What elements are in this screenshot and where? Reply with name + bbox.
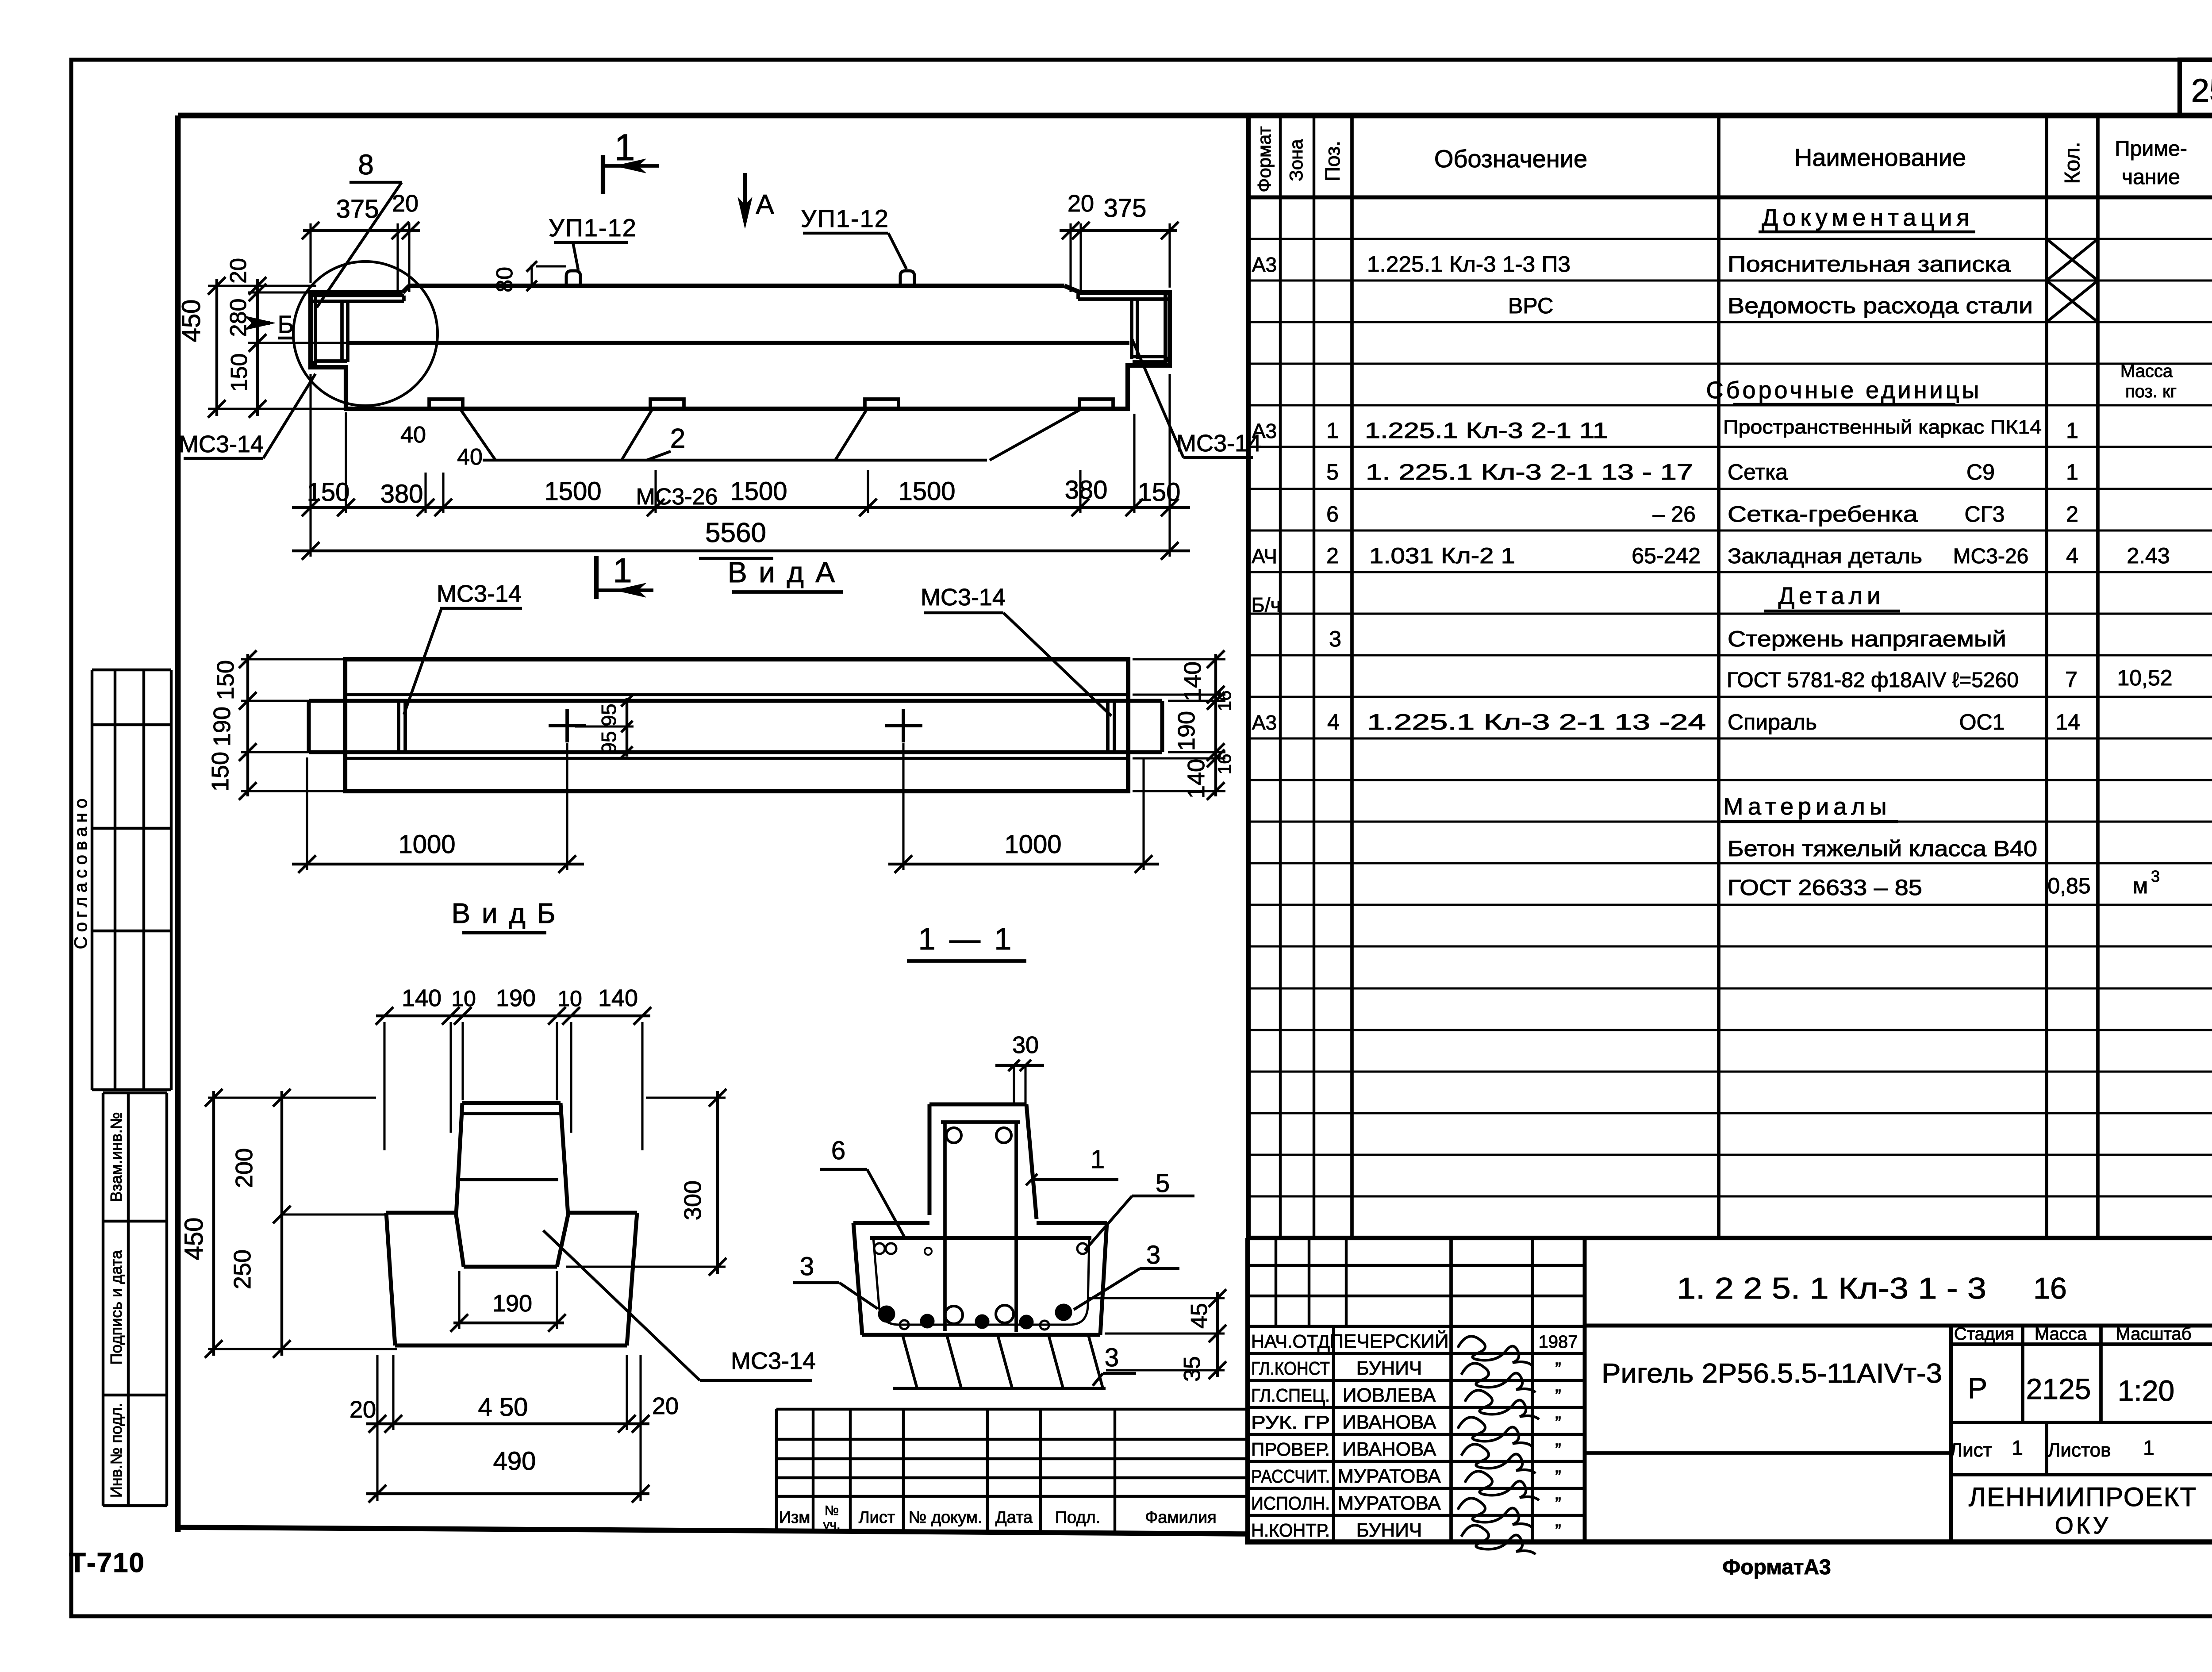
svg-text:РАССЧИТ.: РАССЧИТ. [1251,1466,1330,1487]
svg-text:5: 5 [1156,1169,1170,1198]
svg-text:1: 1 [2066,418,2078,443]
dimension texts 150 380 1500 x3 380 150 [307,422,1181,508]
svg-text:”: ” [1555,1386,1561,1406]
Вид Б left chain 200 250 [208,1089,397,1358]
svg-text:10: 10 [451,986,476,1011]
svg-text:Формат: Формат [1254,126,1275,192]
svg-text:АЧ: АЧ [1252,545,1277,568]
svg-text:5: 5 [1326,460,1339,484]
svg-text:Пояснительная записка: Пояснительная записка [1728,252,2011,277]
stamp format note [1722,1556,1831,1579]
svg-text:А3: А3 [1252,419,1277,442]
svg-text:Инв.№ подл.: Инв.№ подл. [107,1403,125,1498]
svg-text:”: ” [1555,1467,1561,1487]
svg-text:уч.: уч. [823,1518,841,1532]
label МС3-26 [636,484,718,510]
svg-text:3: 3 [1329,627,1341,651]
svg-text:380: 380 [380,480,423,508]
section 1-1 flange top rebars [874,1243,1088,1255]
svg-text:6: 6 [831,1136,845,1165]
svg-text:МС3-14: МС3-14 [731,1348,816,1374]
svg-text:ОС1: ОС1 [1959,710,2005,734]
svg-text:УП1-12: УП1-12 [801,204,889,232]
section 1-1 stirrups and mesh [870,1122,1091,1332]
svg-text:20: 20 [1068,190,1094,217]
svg-text:14: 14 [2055,710,2080,734]
svg-text:”: ” [1555,1440,1561,1460]
svg-text:35: 35 [1179,1356,1205,1382]
stamp list row [1950,1436,2154,1461]
svg-text:Подл.: Подл. [1055,1508,1101,1527]
svg-text:1.031 Кл-2 1: 1.031 Кл-2 1 [1369,543,1515,568]
section 1-1 spiral hatch below [893,1335,1106,1388]
specification table headers [1254,126,2187,192]
svg-text:СГ3: СГ3 [1965,502,2005,527]
section 1-1 right dims 45 35 [1088,1289,1226,1382]
svg-text:Изм: Изм [779,1508,810,1527]
leader collector line for МС3-26 plates [460,409,1082,460]
bottom embedded plates МС3-26 [429,399,1113,409]
stamp designation 1.225.1 КЛ-3 1-3 / 16 [1677,1272,2067,1305]
svg-text:Лист: Лист [1950,1439,1992,1461]
svg-text:Масса: Масса [2035,1324,2087,1344]
svg-text:Пространственный каркас ПК14: Пространственный каркас ПК14 [1723,416,2042,438]
svg-text:1: 1 [1091,1145,1105,1174]
svg-text:”: ” [1555,1359,1561,1379]
svg-text:Кол.: Кол. [2061,142,2084,184]
svg-text:250: 250 [229,1249,256,1289]
svg-text:Согласовано: Согласовано [71,794,91,949]
svg-text:150: 150 [1138,478,1181,507]
label 5 [1085,1169,1194,1250]
stamp signature rows [1251,1330,1578,1554]
lifting loop УП1-12 no.2 [900,271,914,286]
label МС3-14 (Вид Б) [543,1230,816,1380]
svg-text:МУРАТОВА: МУРАТОВА [1337,1492,1441,1514]
spec row Сетка-гребенка СГ3 [1326,502,2078,527]
spec row ГОСТ 5781-82 [1727,665,2173,692]
svg-text:140: 140 [1183,759,1210,799]
svg-text:16: 16 [1214,754,1235,775]
svg-text:6: 6 [1326,502,1339,527]
svg-text:№: № [825,1503,839,1518]
Вид Б left dim 450 [180,1089,223,1358]
svg-text:0,85: 0,85 [2047,873,2090,898]
change log table [776,1409,1248,1533]
title Вид Б [451,897,557,933]
Вид А stem half-width dims 95 / 95 [575,695,634,758]
svg-text:”: ” [1555,1413,1561,1433]
svg-text:Ведомость расхода стали: Ведомость расхода стали [1728,293,2033,318]
label 3 bottom [1093,1343,1136,1386]
label УП1-12 no.2 [801,204,906,269]
Вид А outline [309,659,1162,791]
Вид Б bottom dim 490 [366,1447,649,1503]
svg-text:300: 300 [680,1180,706,1220]
svg-text:ГЛ.СПЕЦ.: ГЛ.СПЕЦ. [1251,1385,1330,1406]
svg-text:ПЕЧЕРСКИЙ: ПЕЧЕРСКИЙ [1329,1330,1448,1352]
svg-text:20: 20 [392,190,419,217]
svg-text:1: 1 [2143,1436,2154,1459]
svg-text:10,52: 10,52 [2117,665,2172,690]
spec row Закладная деталь МС3-26 [1252,543,2170,568]
spec row Спираль ОС1 [1252,710,2080,734]
spec row Стержень напрягаемый [1252,593,2006,651]
svg-text:Подпись и дата: Подпись и дата [107,1250,125,1365]
svg-text:Материалы: Материалы [1723,793,1891,820]
svg-text:30: 30 [1012,1032,1039,1058]
section 1-1 outline [853,1104,1107,1335]
approval grid [92,670,171,1090]
svg-text:7: 7 [2065,667,2078,692]
Вид А right dims 140 16 190 16 140 [1133,650,1235,800]
spec row Детали [1764,583,1900,611]
svg-text:БУНИЧ: БУНИЧ [1356,1519,1422,1541]
spec row Пояснительная записка [1252,239,2098,281]
svg-text:ИСПОЛН.: ИСПОЛН. [1251,1493,1330,1514]
svg-text:5560: 5560 [705,518,766,548]
title 1 - 1 [907,922,1026,961]
svg-text:”: ” [1555,1494,1561,1514]
svg-text:ГЛ.КОНСТ: ГЛ.КОНСТ [1251,1358,1330,1379]
elevation bottom dimension line (chain) [292,374,1190,557]
svg-text:20: 20 [652,1393,679,1419]
svg-text:150: 150 [307,478,350,507]
svg-text:А3: А3 [1252,711,1277,734]
svg-text:поз. кг: поз. кг [2125,382,2177,401]
Вид А left dims 150 190 150 [207,650,347,800]
left margin block Взам.инв.№ / Подпись и дата / Инв.№ подл. [103,1093,167,1506]
svg-text:140: 140 [402,985,442,1011]
section 1-1 top rebars [946,1128,1011,1143]
svg-text:375: 375 [1104,194,1147,223]
spec row Материалы [1721,793,1898,822]
svg-text:490: 490 [493,1447,536,1476]
svg-text:380: 380 [1065,476,1108,504]
svg-text:Поз.: Поз. [1321,141,1344,181]
svg-text:1: 1 [614,127,635,168]
svg-text:1500: 1500 [544,477,601,506]
stamp stadia massa masshtab [1954,1324,2192,1407]
svg-text:Стадия: Стадия [1954,1324,2014,1344]
left vertical chain 20 280 150 [208,258,350,418]
svg-text:2: 2 [670,423,685,454]
svg-text:В и д А: В и д А [728,556,837,588]
section cut mark 1 (top) [603,127,659,194]
label 1 [1026,1145,1118,1185]
specification table grid [1248,115,2212,1238]
svg-text:190: 190 [1173,711,1200,751]
svg-text:”: ” [1555,1521,1561,1541]
svg-text:ЛЕННИИПРОЕКТ: ЛЕННИИПРОЕКТ [1969,1482,2197,1512]
stamp organization [1969,1482,2197,1539]
spec row Документация [1759,204,1975,232]
svg-text:Сетка: Сетка [1728,460,1788,484]
svg-text:Р: Р [1968,1372,1987,1404]
svg-text:2.43: 2.43 [2127,543,2170,568]
svg-text:450: 450 [177,300,206,342]
svg-text:190: 190 [492,1290,532,1317]
svg-text:3: 3 [800,1252,814,1281]
svg-text:Масштаб: Масштаб [2116,1324,2191,1344]
svg-text:Стержень напрягаемый: Стержень напрягаемый [1728,627,2006,651]
label 6 [820,1136,904,1237]
svg-text:Наименование: Наименование [1794,143,1966,171]
label МС3-14 left (elevation) [179,374,315,458]
svg-text:450: 450 [180,1218,208,1261]
svg-text:Т-710: Т-710 [69,1548,145,1578]
spec row Сетка С9 [1326,460,2078,484]
title block grid [1248,1238,2212,1542]
svg-text:20: 20 [349,1396,376,1423]
svg-text:Лист: Лист [859,1508,895,1527]
svg-text:ПРОВЕР.: ПРОВЕР. [1251,1439,1330,1460]
Вид А dimension 1000 left [292,743,584,873]
svg-text:ИВАНОВА: ИВАНОВА [1342,1438,1436,1460]
svg-text:4 50: 4 50 [478,1393,528,1422]
svg-text:1.225.1 Кл-3 2-1 13 -24: 1.225.1 Кл-3 2-1 13 -24 [1367,710,1706,734]
svg-text:16: 16 [1214,691,1235,711]
spec row Пространственный каркас ПК14 [1252,416,2078,443]
top left dimensions 375 / 20 [302,190,420,292]
svg-text:8: 8 [358,149,374,181]
svg-text:40: 40 [400,422,426,448]
svg-text:Обозначение: Обозначение [1434,145,1587,173]
svg-text:200: 200 [231,1148,257,1188]
inner drawing frame [178,115,2212,1542]
svg-text:Сетка-гребенка: Сетка-гребенка [1728,502,1918,527]
svg-text:МС3-14: МС3-14 [437,580,522,607]
svg-text:Зона: Зона [1286,139,1306,181]
Вид Б top dims 140 10 190 10 140 [376,985,651,1150]
embedded channel plate MC3-14 left [312,296,404,367]
svg-text:65-242: 65-242 [1632,543,1701,568]
Вид Б dim 190 (stem bottom) [450,1271,566,1332]
svg-text:№ докум.: № докум. [909,1508,983,1527]
svg-text:БУНИЧ: БУНИЧ [1356,1357,1422,1379]
svg-text:Б: Б [278,310,294,338]
svg-text:2: 2 [1326,543,1339,568]
svg-text:ВРС: ВРС [1508,293,1553,318]
view direction mark Б [244,310,295,338]
svg-text:м: м [2133,873,2148,898]
svg-text:Б/ч: Б/ч [1252,593,1281,616]
svg-text:10: 10 [557,986,582,1011]
stamp title Ригель [1601,1358,1942,1389]
svg-text:375: 375 [336,195,379,223]
svg-text:3: 3 [1105,1343,1119,1372]
lifting loop УП1-12 no.1 [566,271,580,286]
label 3 left [793,1252,878,1309]
svg-text:4: 4 [2066,543,2078,568]
svg-text:1500: 1500 [898,477,955,506]
svg-text:190: 190 [496,985,536,1011]
svg-text:95: 95 [597,703,620,726]
svg-text:Документация: Документация [1762,204,1974,231]
svg-text:Бетон тяжелый класса В40: Бетон тяжелый класса В40 [1728,836,2037,861]
svg-text:Сборочные единицы: Сборочные единицы [1706,377,1982,404]
plate edges (Вид А) [399,701,1114,752]
loop height dimension 80 [492,261,566,292]
left margin label Согласовано [71,794,91,949]
spec row Сборочные единицы [1706,361,2177,404]
svg-text:4: 4 [1327,710,1340,734]
svg-text:80: 80 [492,267,518,292]
beam elevation outline [311,286,1170,409]
svg-text:Закладная деталь: Закладная деталь [1728,545,1922,568]
label МС3-14 right (elevation) [1131,337,1261,457]
svg-text:Дата: Дата [995,1508,1033,1527]
svg-text:20: 20 [226,258,251,284]
svg-text:УП1-12: УП1-12 [549,214,637,242]
svg-text:1:20: 1:20 [2118,1374,2174,1407]
svg-text:1. 225.1 Кл-3 2-1 13 - 17: 1. 225.1 Кл-3 2-1 13 - 17 [1366,460,1693,484]
section 1-1 bottom rebars [878,1304,1072,1330]
svg-text:А: А [756,189,774,220]
Вид Б outline [386,1103,637,1345]
label 3 right [1074,1241,1179,1310]
svg-text:1 — 1: 1 — 1 [918,922,1014,956]
svg-text:Н.КОНТР.: Н.КОНТР. [1251,1520,1330,1541]
svg-text:150: 150 [212,660,239,700]
view direction mark A [738,173,774,228]
svg-text:МС3-14: МС3-14 [921,584,1006,611]
svg-text:Фамилия: Фамилия [1145,1508,1216,1527]
svg-text:Взам.инв.№: Взам.инв.№ [107,1112,125,1202]
svg-text:Ригель 2Р56.5.5-11АIVт-3: Ригель 2Р56.5.5-11АIVт-3 [1601,1358,1942,1389]
svg-text:95: 95 [597,731,620,753]
svg-text:Приме-: Приме- [2115,137,2187,161]
svg-text:40: 40 [457,444,483,470]
svg-text:1. 2 2 5. 1 Кл-3 1 - 3: 1. 2 2 5. 1 Кл-3 1 - 3 [1677,1272,1986,1305]
svg-text:РУК. ГР: РУК. ГР [1251,1412,1330,1433]
svg-text:16: 16 [2033,1272,2067,1305]
left vertical dimension 450 [177,277,226,418]
svg-text:ИВАНОВА: ИВАНОВА [1342,1411,1436,1433]
label УП1-12 no.1 [549,214,637,270]
svg-text:С9: С9 [1966,460,1995,484]
svg-text:1: 1 [2012,1436,2023,1459]
svg-text:1: 1 [1326,418,1339,443]
embedded channel plate MC3-14 right [1078,293,1168,365]
svg-text:1500: 1500 [730,477,787,506]
svg-text:Листов: Листов [2048,1439,2111,1461]
detail circle Б [293,261,438,406]
svg-text:чание: чание [2122,165,2180,189]
svg-text:МС3-26: МС3-26 [636,484,718,510]
section cut mark 1 (at Вид А) [596,551,653,599]
svg-text:3: 3 [2151,867,2160,885]
svg-text:45: 45 [1187,1303,1212,1329]
position label 8 with leader [317,149,402,307]
svg-text:НАЧ.ОТД: НАЧ.ОТД [1251,1331,1330,1352]
svg-text:ГОСТ 5781-82 ф18АIV ℓ=5260: ГОСТ 5781-82 ф18АIV ℓ=5260 [1727,669,2019,692]
svg-text:2: 2 [2066,502,2078,527]
svg-text:1000: 1000 [398,830,455,859]
change log headers [779,1503,1217,1532]
svg-text:А3: А3 [1252,253,1277,276]
section 1-1 dim 30 [995,1032,1044,1104]
svg-text:1000: 1000 [1004,830,1061,859]
title Вид А [728,556,843,592]
svg-text:ГОСТ 26633 – 85: ГОСТ 26633 – 85 [1728,875,1922,900]
label МС3-14 right (Вид А) [921,584,1111,716]
svg-text:ОКУ: ОКУ [2055,1512,2111,1539]
svg-text:1.225.1 Кл-3 2-1 11: 1.225.1 Кл-3 2-1 11 [1365,418,1608,443]
Вид Б right dim 300 [566,1089,726,1276]
overall dimension 5560 [292,518,1190,560]
svg-text:25: 25 [2191,72,2212,109]
svg-text:МС3-26: МС3-26 [1953,545,2029,568]
svg-text:МУРАТОВА: МУРАТОВА [1337,1465,1441,1487]
svg-text:Спираль: Спираль [1728,710,1817,734]
svg-text:МС3-14: МС3-14 [179,431,264,457]
svg-text:2125: 2125 [2026,1372,2091,1405]
spec row Ведомость расхода стали [1508,281,2098,322]
svg-text:1: 1 [2066,460,2078,484]
svg-text:3: 3 [1146,1241,1160,1269]
svg-text:190: 190 [209,707,235,746]
top right dimensions 20 / 375 [1060,190,1179,292]
svg-text:1987: 1987 [1539,1332,1578,1352]
Вид А dimension 1000 right [888,743,1159,873]
svg-text:140: 140 [598,985,638,1011]
label МС3-14 left (Вид А) [404,580,522,715]
spec row ГОСТ 26633-85 [1728,867,2160,900]
svg-text:Детали: Детали [1778,583,1885,609]
svg-text:– 26: – 26 [1653,502,1696,527]
svg-text:1.225.1 Кл-3 1-3 П3: 1.225.1 Кл-3 1-3 П3 [1367,252,1571,277]
Вид Б bottom dims 20 450 20 [349,1355,679,1501]
svg-text:ФорматА3: ФорматА3 [1722,1556,1831,1579]
spec row Бетон тяжелый класса В40 [1728,836,2037,861]
svg-text:В и д Б: В и д Б [451,897,557,929]
svg-text:150: 150 [227,354,252,392]
svg-text:Масса: Масса [2120,361,2173,381]
svg-text:1: 1 [613,551,632,590]
lifting point crosses [549,709,922,742]
svg-text:150: 150 [207,752,234,792]
svg-text:ИОВЛЕВА: ИОВЛЕВА [1343,1384,1436,1406]
sheet number box 25 [2180,60,2212,115]
document code T-710 [69,1548,145,1578]
position label 2 [647,423,685,460]
svg-text:140: 140 [1179,661,1206,701]
